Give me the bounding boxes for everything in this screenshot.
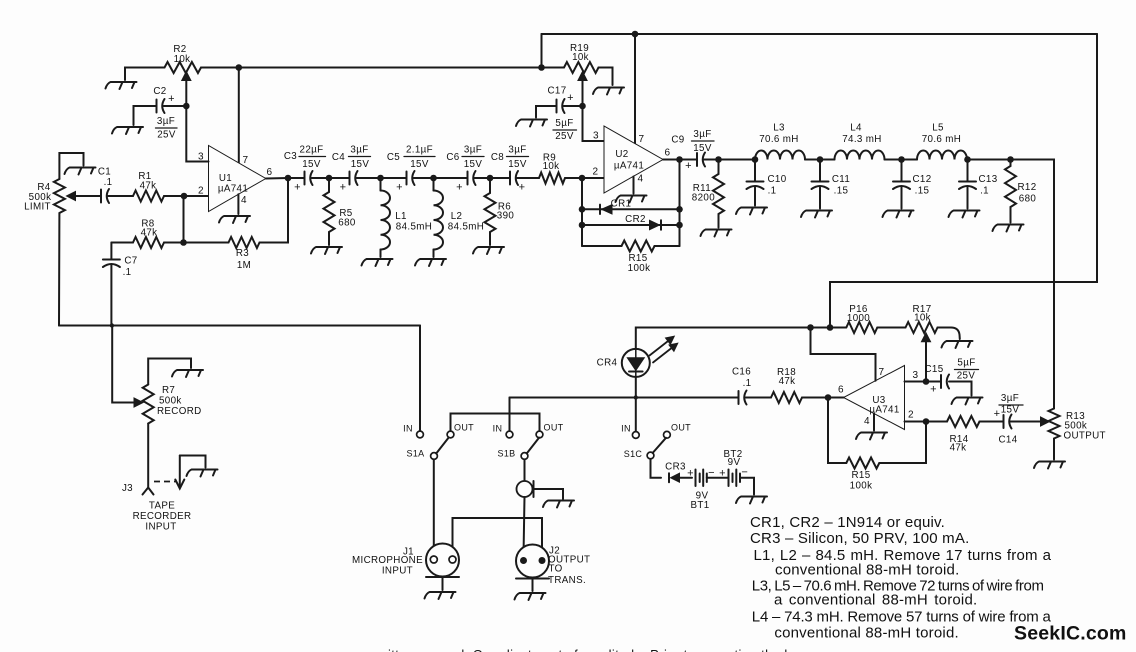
ground R4 top [65,168,96,175]
svg-text:C12: C12 [912,174,931,185]
svg-text:7: 7 [639,134,645,145]
ground R7 top [172,370,203,377]
ground C17 [516,120,547,127]
svg-text:.1: .1 [123,267,132,278]
svg-text:S1A: S1A [406,449,424,459]
svg-text:6: 6 [838,385,844,396]
svg-text:RECORDER: RECORDER [133,511,192,522]
svg-text:a conventional 88-mH toroid.: a conventional 88-mH toroid. [774,592,977,609]
wire input bus [59,325,420,327]
svg-text:IN: IN [493,424,503,434]
svg-text:L4: L4 [850,123,862,134]
resistor R6 390 [489,178,491,193]
wire U3 pin7 supply [811,328,876,381]
ground U2 pin4 [633,177,635,194]
svg-text:70.6 mH: 70.6 mH [922,134,961,145]
svg-text:BT1: BT1 [690,500,709,511]
svg-text:CR3 – Silicon, 50 PRV, 100 mA.: CR3 – Silicon, 50 PRV, 100 mA. [750,530,969,547]
node U1 pin2 [181,193,188,200]
svg-text:L1: L1 [395,211,407,222]
node R19 wiper / C17 junction [579,103,586,110]
resistor R17 10k potentiometer [906,322,938,333]
svg-text:70.6 mH: 70.6 mH [759,134,798,145]
svg-text:L2: L2 [451,211,463,222]
svg-text:OUT: OUT [543,423,563,433]
resistor R7 500k RECORD potentiometer [143,385,154,424]
node C12 junction [898,156,905,163]
svg-text:.1: .1 [104,177,113,188]
wire U1 pin 7 to rail [238,68,240,163]
svg-text:25V: 25V [157,130,176,141]
svg-text:10k: 10k [914,313,931,324]
wire S1B IN drop [509,398,511,432]
node L2 junction [430,175,437,182]
capacitor C16 .1 [739,391,747,405]
svg-text:C14: C14 [998,435,1017,446]
svg-text:OUT: OUT [454,423,474,433]
svg-text:C2: C2 [153,86,166,97]
node U2 output [663,159,680,161]
ground J2 [515,593,546,600]
capacitor C10 .1 [754,160,756,182]
switch S1B [506,431,513,438]
svg-text:15V: 15V [351,159,370,170]
svg-text:2: 2 [198,186,204,197]
inductor L3 70.6 mH [755,151,805,160]
svg-text:10k: 10k [543,161,560,172]
svg-text:+: + [930,384,937,396]
inductor L4 74.3 mH [820,159,835,161]
resistor R15 100k (U3 feedback) [828,398,846,464]
wire R19 right lead [599,68,613,86]
svg-text:+: + [994,408,1001,420]
svg-text:conventional 88-mH toroid.: conventional 88-mH toroid. [775,562,959,579]
wire R2 left lead to ground [125,68,165,81]
svg-text:OUT: OUT [671,423,691,433]
resistor R2 10k potentiometer [165,62,201,73]
resistor R13 500k OUTPUT potentiometer [1049,409,1060,439]
svg-text:C11: C11 [832,174,850,185]
svg-text:3: 3 [913,370,919,381]
LED CR4 light arrows [650,340,671,356]
svg-text:3µF: 3µF [350,145,368,156]
svg-text:3µF: 3µF [157,116,175,127]
svg-text:7: 7 [243,155,249,166]
svg-text:47k: 47k [950,443,967,454]
capacitor C9 3uF 15V [697,153,705,167]
svg-text:IN: IN [403,424,413,434]
ground R2 left [106,82,137,89]
resistor R1 47k [133,191,164,202]
wire feedback right vertical [679,160,681,247]
wire right supply drop [830,34,1097,328]
capacitor C8 3uF 15V [490,177,510,179]
wiper arrow R2 [185,79,187,106]
svg-text:J3: J3 [122,483,133,494]
svg-text:.1: .1 [768,186,777,197]
capacitor C17 5uF 25V [557,99,565,113]
node L1 junction [377,175,384,182]
svg-text:47k: 47k [141,228,158,239]
svg-text:IN: IN [621,424,631,434]
ground L2 [415,259,446,266]
node R5 junction [326,175,333,182]
svg-text:3µF: 3µF [508,145,526,156]
wire C2 left lead [134,106,157,125]
wire CR4 top lead [636,328,811,349]
ground C13 [949,211,980,218]
svg-text:+: + [519,182,526,194]
svg-text:680: 680 [338,218,356,229]
wire J1 right pin to J2 right pin [453,518,543,556]
svg-text:C7: C7 [124,256,137,267]
connector J1 MICROPHONE INPUT [426,544,459,577]
capacitor C3 22uF 15V [305,171,313,185]
wire CR4 to S1C IN [635,377,637,432]
ground C12 [883,211,914,218]
svg-text:R3: R3 [236,248,249,259]
svg-text:680: 680 [1019,194,1037,205]
svg-text:5µF: 5µF [957,358,975,369]
svg-text:R12: R12 [1017,182,1036,193]
svg-text:S1C: S1C [624,449,643,459]
node input bus junction [110,323,114,327]
svg-text:C5: C5 [387,152,400,163]
wire U2 pin7 drop [634,34,636,144]
node U3 pin3 [905,381,927,383]
node C10 junction [719,159,756,161]
svg-text:4: 4 [864,416,870,427]
switch S1C [632,432,639,439]
wiper arrow R13 [1011,421,1042,423]
svg-text:25V: 25V [957,371,976,382]
wiper arrow R19 [582,79,584,106]
resistor R9 10k [539,173,565,184]
wire U1 pin3 [186,106,208,162]
svg-text:4: 4 [638,174,644,185]
node C11 junction [817,156,824,163]
svg-text:15V: 15V [464,159,483,170]
ground R6 [473,247,504,254]
svg-text:.15: .15 [915,186,930,197]
connector J2 OUTPUT TO TRANS. [516,545,549,578]
svg-text:SeekIC.com: SeekIC.com [1014,623,1127,645]
svg-text:22µF: 22µF [300,145,324,156]
svg-text:LIMIT: LIMIT [24,202,51,213]
svg-text:CR3: CR3 [665,462,686,473]
ground C15 [952,398,983,405]
svg-text:C15: C15 [924,364,943,375]
svg-text:C1: C1 [98,167,111,178]
ground R13 [1034,462,1065,469]
wire S1B IN to C16 [510,397,739,399]
ground C10 [736,208,767,215]
wire R13 bottom lead [1053,439,1055,460]
ground C11 [801,211,832,218]
svg-text:L4 – 74.3 mH. Remove 57 turns: L4 – 74.3 mH. Remove 57 turns of wire fr… [752,609,1052,626]
svg-text:+: + [719,468,726,480]
diode CR3 [671,473,680,482]
wire BT1 to BT2 [707,477,729,479]
svg-text:4: 4 [241,195,247,206]
svg-text:3µF: 3µF [693,129,711,140]
svg-text:C8: C8 [491,152,504,163]
svg-text:INPUT: INPUT [382,566,413,577]
svg-text:100k: 100k [628,263,651,274]
node R11 junction [715,156,722,163]
capacitor C6 3uF 15V [434,177,468,179]
ground R19 [593,88,624,95]
resistor R4 500k LIMIT potentiometer [54,179,65,213]
svg-text:390: 390 [497,211,515,222]
node R12 junction [968,159,1011,161]
node P16 rail junction [827,324,834,331]
svg-text:6: 6 [665,148,671,159]
resistor R3 1M [184,242,229,244]
wire R7 top lead [148,359,191,385]
svg-text:2: 2 [908,410,914,421]
wiper arrow R17 [925,340,927,382]
wire R4 bottom lead [58,213,60,326]
ground C2 [112,127,143,134]
svg-text:.1: .1 [743,378,752,389]
svg-text:47k: 47k [779,376,796,387]
wire U2 pin3 [583,106,605,141]
wire bus to S1A IN [419,326,421,432]
node R6 junction [487,175,494,182]
svg-text:conventional 88-mH toroid.: conventional 88-mH toroid. [774,625,958,642]
capacitor C4 3uF 15V [329,177,350,179]
resistor R8 47k [133,237,164,248]
svg-text:C4: C4 [332,152,345,163]
svg-text:15V: 15V [1001,405,1020,416]
svg-text:2.1µF: 2.1µF [406,145,433,156]
wire C15 to ground [949,382,972,396]
ground battery [736,497,767,504]
svg-text:25V: 25V [555,131,574,142]
capacitor C12 .15 [901,160,903,182]
svg-text:3: 3 [593,131,599,142]
wire S1B pole to feedthrough [524,459,526,480]
capacitor C5 2.1uF 15V [381,177,407,179]
svg-text:1M: 1M [237,260,251,271]
svg-text:+: + [396,182,403,194]
svg-text:7: 7 [879,367,885,378]
resistor R19 10k potentiometer [542,67,565,69]
svg-text:500k: 500k [159,396,182,407]
svg-text:C13: C13 [978,174,997,185]
plug arrow into J3 [154,481,176,483]
svg-text:+: + [340,182,347,194]
svg-text:+: + [456,182,463,194]
wiper arrow R4 [76,195,101,197]
resistor R5 680 [328,178,330,192]
resistor R12 680 [1010,160,1012,167]
op-amp U3 uA741 [844,366,905,430]
svg-text:15V: 15V [302,159,321,170]
svg-text:RECORD: RECORD [157,406,202,417]
svg-text:R7: R7 [162,385,175,396]
wiper arrow R7 [134,398,143,407]
wire R7 bottom lead [147,424,149,488]
resistor R18 47k [771,392,802,403]
wire S1A pole to J1 [433,459,435,556]
svg-text:+: + [567,92,574,104]
node R2 wiper / C2 junction [183,103,190,110]
ground R17 [942,341,973,348]
switch S1A [417,431,424,438]
ground feedthrough [543,501,574,508]
svg-text:5µF: 5µF [555,118,573,129]
svg-text:TO: TO [549,564,563,575]
wire top supply rail [542,33,1098,35]
inductor L1 84.5mH [380,178,382,191]
svg-text:3: 3 [198,152,204,163]
svg-text:10k: 10k [174,54,191,65]
resistor R14 47k [926,421,947,423]
jack J3 tip contact [143,488,154,495]
ground R5 [311,247,342,254]
svg-text:MICROPHONE: MICROPHONE [352,555,423,566]
wire feedthrough to J2 [524,497,525,556]
svg-text:8200: 8200 [692,193,715,204]
svg-text:9V: 9V [728,457,741,468]
svg-text:CR1, CR2 – 1N914 or equiv.: CR1, CR2 – 1N914 or equiv. [750,514,945,531]
wire pin2 to feedback node [183,196,185,243]
svg-text:µA741: µA741 [218,184,248,195]
svg-text:S1B: S1B [497,449,515,459]
node R8-R3 junction [180,239,187,246]
wire S1C pole to CR3 [651,459,662,478]
wire C17 left lead [536,106,557,118]
node U3 pin2 [905,421,927,423]
ground L1 [362,259,393,266]
inductor L5 70.6 mH [902,159,918,161]
wire R4 top lead [59,153,83,179]
svg-text:TAPE: TAPE [149,501,175,512]
svg-text:84.5mH: 84.5mH [396,222,432,233]
svg-text:10k: 10k [572,52,589,63]
svg-text:.1: .1 [980,186,989,197]
capacitor C15 5uF 25V [941,375,949,389]
ground U1 pin4 [237,194,239,214]
svg-text:3µF: 3µF [1001,393,1019,404]
LED CR4 [622,349,650,377]
svg-text:CR1: CR1 [611,199,632,210]
node U1 output [266,177,288,180]
svg-text:2: 2 [593,167,599,178]
svg-text:CR4: CR4 [597,358,618,369]
diode CR1 [582,208,680,210]
wire BT2 to ground [740,478,754,495]
svg-text:itter removal. On adjustment o: itter removal. On adjustment of amplitud… [388,647,792,652]
svg-text:U2: U2 [615,149,628,160]
wire feedthrough to ground [534,489,564,499]
capacitor C7 .1 [110,243,112,260]
svg-text:C16: C16 [732,367,751,378]
node C13 junction [964,156,971,163]
op-amp U1 uA741 [209,146,266,212]
svg-text:84.5mH: 84.5mH [448,222,484,233]
svg-text:R15: R15 [851,470,870,481]
wire R2 output rail [201,67,542,69]
feedthrough bushing [517,481,533,497]
node U3 pin6 [825,394,832,401]
svg-text:47k: 47k [140,181,157,192]
svg-text:3µF: 3µF [464,145,482,156]
svg-text:CR2: CR2 [625,214,646,225]
capacitor C13 .1 [967,160,969,182]
svg-text:OUTPUT: OUTPUT [1064,431,1106,442]
wire bus to R7 wiper [112,326,134,403]
ground J1 [425,592,456,599]
svg-text:100k: 100k [850,481,873,492]
resistor R11 8200 [718,160,720,175]
svg-text:6: 6 [267,167,273,178]
capacitor C1 .1 [101,189,109,203]
ground R11 [701,230,732,237]
ground J3 plug [187,470,218,477]
svg-text:+: + [294,182,301,194]
svg-text:15V: 15V [410,159,429,170]
svg-text:C3: C3 [284,151,297,162]
svg-text:.15: .15 [834,186,849,197]
op-amp U2 uA741 [604,126,663,193]
svg-text:L3: L3 [773,123,785,134]
svg-text:µA741: µA741 [614,161,644,172]
svg-text:INPUT: INPUT [145,522,176,533]
svg-text:C6: C6 [446,152,459,163]
wire plug to ground [180,456,206,468]
svg-text:TRANS.: TRANS. [548,575,586,586]
diode CR2 [582,224,680,226]
svg-text:+: + [687,468,694,480]
capacitor C11 .15 [819,160,821,182]
svg-text:1000: 1000 [847,313,870,324]
capacitor C14 3uF 15V [1004,415,1012,429]
wire J1 shell ground [442,577,444,590]
svg-text:15V: 15V [693,143,712,154]
svg-text:C9: C9 [671,135,684,146]
node supply-R19 junction [541,34,543,68]
svg-text:15V: 15V [508,159,527,170]
wire S1A-S1B OUT bracket [451,414,540,432]
wire feedback left vertical [581,178,583,246]
wire filter output to R13 [1011,160,1055,409]
capacitor C2 3uF 25V [157,99,165,113]
svg-text:+: + [168,93,175,105]
ground R12 [993,225,1024,232]
svg-text:C10: C10 [767,174,786,185]
inductor L2 84.5mH [433,178,435,191]
svg-text:U1: U1 [219,173,232,184]
svg-text:74.3 mH: 74.3 mH [842,134,881,145]
wire J2 shell ground [532,579,534,592]
ground U3 pin4 [873,414,875,431]
svg-text:+: + [685,160,692,172]
node U2 pin2 [579,175,586,182]
resistor R15 100k (U2 feedback) [582,245,622,247]
wire R17 right lead [938,328,960,340]
svg-text:C17: C17 [547,86,566,97]
svg-text:L5: L5 [932,123,944,134]
resistor P16 1000 [846,322,877,333]
node top rail tap U2 pin7 [632,31,639,38]
